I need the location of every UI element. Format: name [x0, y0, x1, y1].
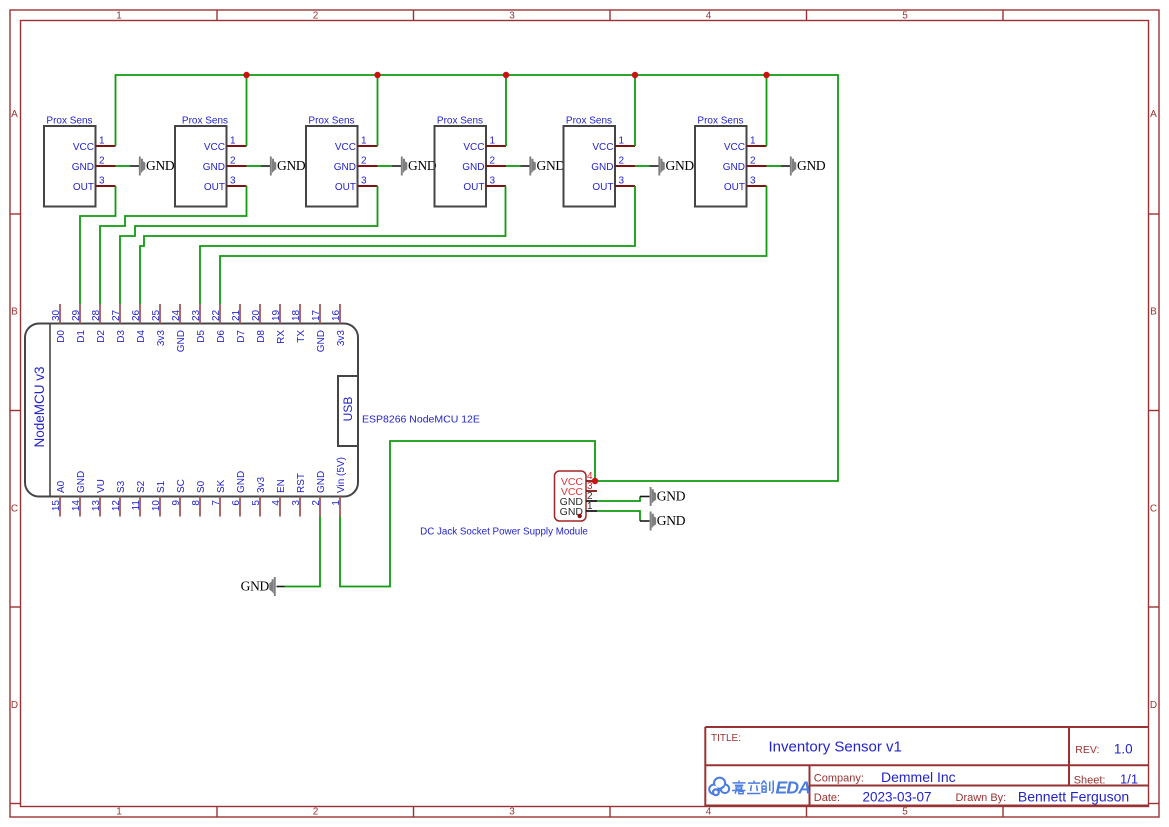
- svg-text:5: 5: [251, 500, 262, 506]
- svg-text:3: 3: [619, 175, 625, 186]
- svg-text:2: 2: [490, 155, 496, 166]
- svg-text:OUT: OUT: [335, 182, 356, 193]
- svg-text:3: 3: [490, 175, 496, 186]
- svg-text:GND: GND: [316, 330, 327, 352]
- svg-text:6: 6: [231, 500, 242, 506]
- svg-text:Prox Sens: Prox Sens: [697, 116, 743, 127]
- svg-text:19: 19: [271, 309, 282, 321]
- svg-text:D0: D0: [56, 330, 67, 343]
- svg-text:1: 1: [99, 135, 105, 146]
- svg-text:EN: EN: [276, 479, 287, 493]
- svg-text:9: 9: [171, 500, 182, 506]
- svg-text:GND: GND: [537, 158, 566, 173]
- svg-text:GND: GND: [241, 579, 270, 594]
- svg-text:3: 3: [230, 175, 236, 186]
- svg-text:GND: GND: [146, 158, 175, 173]
- svg-text:GND: GND: [176, 330, 187, 352]
- svg-text:14: 14: [71, 500, 82, 512]
- svg-text:RX: RX: [276, 330, 287, 344]
- svg-text:Bennett Ferguson: Bennett Ferguson: [1018, 789, 1129, 805]
- svg-text:2023-03-07: 2023-03-07: [863, 790, 932, 805]
- svg-text:2: 2: [619, 155, 625, 166]
- svg-text:1/1: 1/1: [1120, 772, 1138, 787]
- svg-text:1: 1: [361, 135, 367, 146]
- svg-text:1: 1: [331, 500, 342, 506]
- svg-text:OUT: OUT: [724, 182, 745, 193]
- svg-text:3: 3: [509, 807, 515, 818]
- svg-text:GND: GND: [316, 471, 327, 493]
- svg-text:15: 15: [51, 500, 62, 512]
- svg-text:30: 30: [51, 309, 62, 321]
- svg-text:A: A: [11, 109, 18, 120]
- svg-text:ESP8266 NodeMCU 12E: ESP8266 NodeMCU 12E: [362, 413, 480, 425]
- svg-text:VCC: VCC: [73, 142, 94, 153]
- svg-text:2: 2: [313, 11, 319, 22]
- svg-text:4: 4: [271, 500, 282, 506]
- svg-text:D3: D3: [116, 330, 127, 343]
- svg-text:D5: D5: [196, 330, 207, 343]
- svg-text:Vin (5V): Vin (5V): [336, 457, 347, 493]
- svg-text:2: 2: [230, 155, 236, 166]
- svg-text:RST: RST: [296, 473, 307, 493]
- svg-text:TX: TX: [296, 330, 307, 343]
- svg-text:1: 1: [750, 135, 756, 146]
- svg-text:Prox Sens: Prox Sens: [308, 116, 354, 127]
- svg-text:GND: GND: [277, 158, 306, 173]
- svg-text:GND: GND: [203, 162, 225, 173]
- svg-text:GND: GND: [462, 162, 484, 173]
- svg-text:3v3: 3v3: [336, 330, 347, 347]
- svg-text:VCC: VCC: [335, 142, 356, 153]
- svg-text:GND: GND: [657, 489, 686, 504]
- svg-text:S1: S1: [156, 480, 167, 493]
- svg-text:D6: D6: [216, 330, 227, 343]
- svg-text:EDA: EDA: [776, 778, 811, 798]
- svg-text:12: 12: [111, 500, 122, 512]
- svg-text:VCC: VCC: [463, 142, 484, 153]
- svg-text:11: 11: [131, 500, 142, 511]
- svg-text:S2: S2: [136, 480, 147, 493]
- svg-text:DC Jack Socket Power Supply Mo: DC Jack Socket Power Supply Module: [420, 527, 588, 538]
- svg-text:S0: S0: [196, 480, 207, 493]
- svg-text:VU: VU: [96, 479, 107, 493]
- svg-text:1: 1: [490, 135, 496, 146]
- svg-text:2: 2: [313, 807, 319, 818]
- svg-text:10: 10: [151, 500, 162, 512]
- svg-text:A0: A0: [56, 480, 67, 493]
- svg-text:GND: GND: [76, 471, 87, 493]
- svg-text:Sheet:: Sheet:: [1074, 775, 1106, 787]
- svg-text:Prox Sens: Prox Sens: [182, 116, 228, 127]
- svg-text:USB: USB: [341, 397, 355, 422]
- svg-text:VCC: VCC: [724, 142, 745, 153]
- svg-text:GND: GND: [72, 162, 94, 173]
- svg-text:D1: D1: [76, 330, 87, 343]
- svg-text:26: 26: [131, 309, 142, 321]
- svg-text:4: 4: [706, 807, 712, 818]
- svg-text:2: 2: [361, 155, 367, 166]
- svg-text:D4: D4: [136, 330, 147, 343]
- svg-text:5: 5: [902, 807, 908, 818]
- svg-text:25: 25: [151, 309, 162, 321]
- svg-text:3: 3: [361, 175, 367, 186]
- svg-text:GND: GND: [236, 471, 247, 493]
- svg-text:GND: GND: [666, 158, 695, 173]
- svg-text:OUT: OUT: [204, 182, 225, 193]
- svg-text:D: D: [11, 700, 18, 711]
- svg-text:28: 28: [91, 309, 102, 321]
- svg-text:1.0: 1.0: [1114, 742, 1133, 757]
- svg-text:3: 3: [291, 500, 302, 506]
- svg-text:OUT: OUT: [463, 182, 484, 193]
- svg-text:3: 3: [750, 175, 756, 186]
- svg-text:C: C: [1150, 504, 1157, 515]
- svg-text:Inventory Sensor v1: Inventory Sensor v1: [769, 739, 902, 756]
- svg-text:GND: GND: [797, 158, 826, 173]
- svg-text:5: 5: [902, 11, 908, 22]
- svg-text:Prox Sens: Prox Sens: [437, 116, 483, 127]
- svg-text:3: 3: [509, 11, 515, 22]
- svg-text:D: D: [1150, 700, 1157, 711]
- svg-text:TITLE:: TITLE:: [711, 733, 741, 744]
- svg-text:23: 23: [191, 309, 202, 321]
- svg-text:GND: GND: [723, 162, 745, 173]
- svg-text:Prox Sens: Prox Sens: [46, 116, 92, 127]
- svg-text:GND: GND: [408, 158, 437, 173]
- svg-text:8: 8: [191, 500, 202, 506]
- svg-text:1: 1: [230, 135, 236, 146]
- svg-text:B: B: [1150, 307, 1157, 318]
- svg-text:18: 18: [291, 309, 302, 321]
- svg-text:GND: GND: [334, 162, 356, 173]
- svg-text:3v3: 3v3: [156, 330, 167, 347]
- svg-text:Drawn By:: Drawn By:: [956, 792, 1007, 804]
- svg-text:3: 3: [99, 175, 105, 186]
- svg-text:D7: D7: [236, 330, 247, 343]
- svg-text:S3: S3: [116, 480, 127, 493]
- svg-text:NodeMCU v3: NodeMCU v3: [32, 366, 47, 447]
- svg-text:21: 21: [231, 309, 242, 321]
- svg-text:17: 17: [311, 309, 322, 321]
- svg-text:4: 4: [706, 11, 712, 22]
- svg-text:Demmel Inc: Demmel Inc: [881, 769, 956, 785]
- svg-text:D2: D2: [96, 330, 107, 343]
- svg-text:C: C: [11, 504, 18, 515]
- svg-text:22: 22: [211, 309, 222, 321]
- svg-text:1: 1: [619, 135, 625, 146]
- svg-text:REV:: REV:: [1075, 744, 1099, 756]
- svg-text:Date:: Date:: [814, 792, 840, 804]
- svg-text:GND: GND: [657, 513, 686, 528]
- svg-text:24: 24: [171, 309, 182, 321]
- svg-text:GND: GND: [591, 162, 613, 173]
- svg-text:Prox Sens: Prox Sens: [566, 116, 612, 127]
- svg-text:B: B: [11, 307, 18, 318]
- svg-text:1: 1: [116, 807, 122, 818]
- svg-text:7: 7: [211, 500, 222, 506]
- svg-text:SK: SK: [216, 479, 227, 493]
- svg-text:D8: D8: [256, 330, 267, 343]
- svg-text:2: 2: [311, 500, 322, 506]
- svg-text:OUT: OUT: [592, 182, 613, 193]
- svg-text:27: 27: [111, 309, 122, 321]
- svg-text:A: A: [1150, 109, 1157, 120]
- svg-text:2: 2: [750, 155, 756, 166]
- svg-text:3v3: 3v3: [256, 476, 267, 493]
- svg-text:29: 29: [71, 309, 82, 321]
- svg-text:VCC: VCC: [204, 142, 225, 153]
- svg-text:1: 1: [116, 11, 122, 22]
- svg-text:SC: SC: [176, 479, 187, 493]
- svg-text:13: 13: [91, 500, 102, 512]
- svg-text:16: 16: [331, 309, 342, 321]
- svg-text:VCC: VCC: [592, 142, 613, 153]
- svg-text:Company:: Company:: [814, 773, 864, 785]
- svg-text:20: 20: [251, 309, 262, 321]
- svg-text:OUT: OUT: [73, 182, 94, 193]
- svg-text:2: 2: [99, 155, 105, 166]
